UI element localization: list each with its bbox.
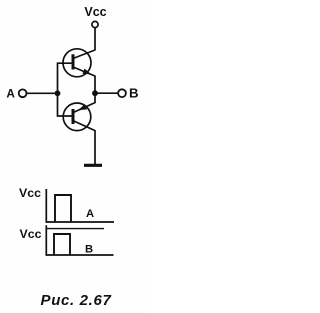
- wire node to B: [95, 92, 118, 94]
- wire Vcc to Q1 collector: [94, 28, 96, 51]
- wire A to base bus: [27, 92, 58, 94]
- svg-text:A: A: [6, 87, 15, 101]
- terminal B: [118, 89, 126, 97]
- svg-text:Vcc: Vcc: [20, 227, 42, 241]
- junction base bus: [55, 90, 61, 96]
- svg-text:B: B: [129, 86, 139, 101]
- transistor Q1: [63, 49, 95, 77]
- waveform A axes: [46, 189, 114, 222]
- Vcc terminal: [92, 21, 98, 27]
- terminal A: [19, 89, 27, 97]
- svg-text:Vcc: Vcc: [84, 5, 106, 19]
- wire Q1 emitter to node: [94, 76, 96, 94]
- waveform B axes: [46, 225, 113, 255]
- svg-text:B: B: [85, 243, 93, 255]
- junction output node: [92, 90, 98, 96]
- wire base bus: [58, 63, 74, 116]
- waveform B Vcc reference line: [46, 228, 104, 230]
- wire Q2 collector to ground: [94, 130, 96, 165]
- transistor Q2: [63, 103, 95, 131]
- svg-text:A: A: [86, 208, 94, 220]
- svg-text:Рис. 2.67: Рис. 2.67: [41, 292, 112, 309]
- ground: [84, 164, 102, 167]
- wire node to Q2 emitter: [94, 93, 96, 103]
- svg-text:Vcc: Vcc: [19, 186, 41, 200]
- waveform A pulse: [55, 195, 71, 222]
- waveform B pulse: [54, 234, 70, 255]
